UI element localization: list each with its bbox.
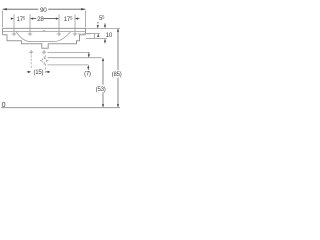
extension line from fixing cross right going right [48, 51, 90, 53]
dimension 17.5 left: outside arrow pointing right [11, 18, 14, 20]
dimension 10: bottom outside arrow (up) [104, 39, 106, 42]
washbasin front view: right edge [85, 28, 87, 34]
svg-text:(7): (7) [84, 72, 91, 78]
svg-text:10: 10 [106, 32, 113, 39]
dimension (53): vertical line [102, 58, 104, 106]
extension line for tap hole cross 2 [29, 14, 31, 31]
floor line [1, 107, 120, 109]
svg-text:55: 55 [99, 15, 105, 23]
dimension (7): bottom outside arrow (up) [87, 65, 89, 68]
dimension (85): top arrow [117, 28, 119, 31]
fixing cross left [29, 50, 33, 54]
extension line at rim underside level (5.5) [95, 33, 100, 35]
extension line left for dim 90 [2, 11, 4, 28]
dimension 90: right arrow [81, 8, 85, 10]
dashed extension line from drain down [45, 55, 47, 74]
extension line for tap hole cross 3 [58, 14, 60, 31]
tap hole cross 3 [57, 32, 61, 36]
extension line at edge bottom level (10) [95, 38, 107, 40]
svg-text:(85): (85) [112, 72, 122, 78]
side profile of basin edge (right of front view) [86, 34, 95, 39]
tap hole cross 4 [73, 32, 77, 36]
dimension 5.5: dashed leader [97, 22, 100, 25]
dimension 28: right arrow [56, 18, 59, 20]
dimension (15): right outside arrow [46, 71, 49, 73]
lower level line for (7) [48, 64, 89, 66]
dimension 90: line [3, 8, 86, 10]
centerline mark at basin middle [43, 29, 45, 31]
dimension (85): vertical line [117, 29, 119, 107]
extension line for tap hole cross 4 [74, 14, 76, 31]
rim top level extension to (85) dimension [86, 27, 121, 29]
svg-text:(15): (15) [33, 70, 43, 76]
dimension 5.5: bottom outside arrow (up) [97, 34, 99, 37]
dimension (53): top arrow [102, 58, 104, 61]
tap hole cross 1 [12, 32, 16, 36]
dimension 28: line right part [43, 18, 55, 20]
dashed extension line from left cross down [30, 55, 32, 69]
dimension 10: top outside arrow (down) [104, 25, 106, 28]
svg-text:28: 28 [37, 17, 44, 23]
extension line for tap hole cross 1 [13, 14, 15, 31]
washbasin front view: rim inner line [3, 30, 86, 32]
washbasin front view: left edge [2, 28, 4, 34]
svg-text:(53): (53) [96, 87, 106, 93]
dimension (85): bottom arrow [117, 104, 119, 107]
washbasin front view: underside stepped outline with drain tab [3, 35, 86, 48]
dimension (53): bottom arrow [102, 104, 104, 107]
svg-text:90: 90 [40, 7, 47, 14]
dimension (15): left outside arrow [28, 71, 31, 73]
svg-text:175: 175 [64, 15, 73, 23]
dimension 28: left outside arrow [30, 18, 33, 20]
dash-dot centerline from cross 4 to the right [78, 33, 90, 35]
drain symbol: dashed circle with cross [42, 58, 47, 63]
dimension 28: line left part [33, 18, 36, 20]
tap hole cross 2 [28, 32, 32, 36]
dimension (7): top outside arrow (down) [88, 54, 90, 57]
dimension (7): dashed leader [87, 68, 89, 71]
washbasin front view: rim top edge [3, 27, 86, 29]
dimension 90: left arrow [3, 8, 7, 10]
dimension 17.5 right: outside arrow pointing left [75, 18, 78, 20]
washbasin front view: bowl inner curve [16, 32, 70, 42]
siphon outlet level line (53 level) [48, 57, 102, 59]
svg-text:175: 175 [17, 15, 26, 23]
dimension 5.5: top outside arrow (down) [97, 25, 99, 28]
svg-text:0: 0 [2, 102, 6, 109]
extension line right for dim 90 [84, 11, 86, 28]
fixing cross right [42, 50, 46, 54]
